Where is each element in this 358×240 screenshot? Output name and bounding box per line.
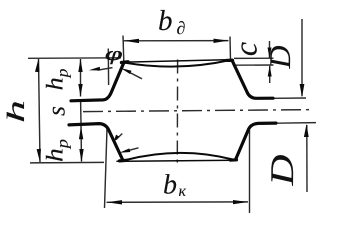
svg-text:D: D — [265, 154, 301, 187]
svg-text:b: b — [158, 5, 173, 37]
svg-text:h: h — [3, 100, 30, 123]
svg-text:∂: ∂ — [177, 18, 186, 38]
svg-text:c: c — [228, 42, 264, 56]
svg-text:к: к — [179, 183, 187, 200]
svg-text:φ: φ — [105, 44, 123, 65]
svg-text:s: s — [44, 106, 71, 116]
svg-text:D: D — [264, 45, 297, 69]
svg-text:b: b — [163, 170, 177, 201]
